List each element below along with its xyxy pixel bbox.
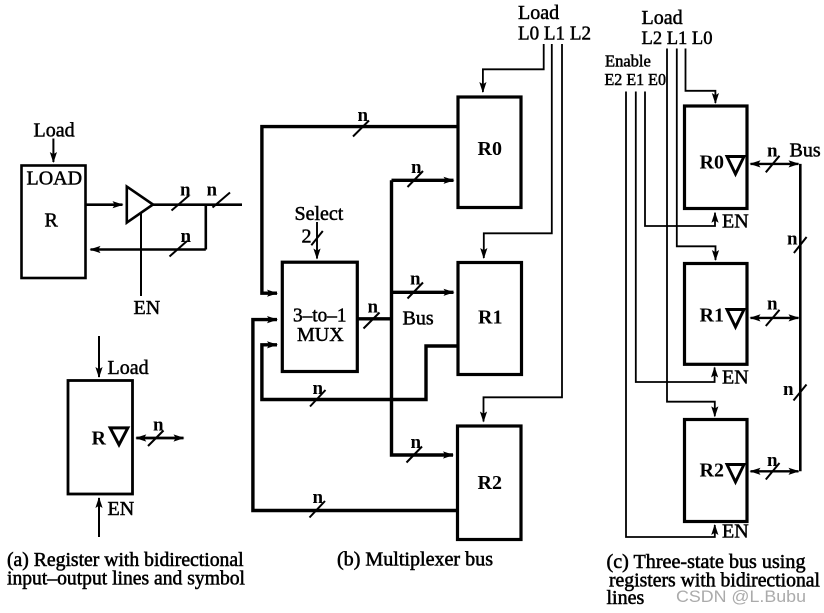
wire E1 to R1 enable [636, 92, 715, 383]
svg-text:E2 E1 E0: E2 E1 E0 [605, 70, 667, 89]
wire L1 to R1 load [484, 44, 552, 258]
svg-text:Bus: Bus [403, 308, 434, 330]
wire EN input to buffer [140, 213, 142, 296]
svg-text:n: n [181, 226, 192, 247]
slash bus lower width [794, 385, 807, 401]
slash output bus width [172, 196, 190, 211]
wire Load input arrow into register R [52, 139, 54, 163]
wire register output to buffer [86, 203, 123, 206]
slash R2 bidir width [766, 463, 780, 480]
register symbol box [68, 381, 133, 495]
svg-text:EN: EN [108, 498, 135, 520]
register R (detailed box) [22, 166, 86, 279]
svg-text:lines: lines [607, 587, 645, 609]
nabla R1 [727, 310, 744, 328]
wire R1 output feedback to MUX input 2 [262, 345, 458, 400]
slash bus to R2 width [407, 447, 423, 463]
svg-text:n: n [313, 378, 324, 399]
svg-text:n: n [787, 229, 798, 250]
svg-text:2: 2 [302, 226, 312, 248]
svg-text:n: n [783, 379, 794, 400]
slash R1 feedback width [310, 390, 326, 407]
svg-text:n: n [767, 294, 778, 315]
wire MUX output to bus [357, 317, 391, 320]
svg-text:Load: Load [108, 357, 149, 379]
three-state buffer [127, 187, 153, 223]
slash R0 bidir width [766, 156, 780, 173]
wire R2 output feedback to MUX input 1 [253, 320, 458, 511]
svg-text:n: n [207, 180, 218, 201]
wire bidirectional data line [136, 437, 183, 440]
wire return line into register [91, 248, 206, 251]
wire bus branch to R1 [392, 291, 454, 294]
svg-text:Bus: Bus [790, 140, 821, 162]
svg-text:Select: Select [295, 203, 344, 225]
nabla R2 [727, 465, 744, 483]
svg-text:Enable: Enable [605, 52, 651, 71]
svg-text:(b) Multiplexer bus: (b) Multiplexer bus [337, 549, 493, 571]
svg-text:Load: Load [642, 7, 683, 29]
wire Select input to MUX [316, 222, 318, 259]
wire R1 bidirectional to bus [751, 317, 799, 319]
svg-text:R2: R2 [478, 472, 502, 494]
wire buffer output line [153, 203, 242, 206]
wire L1 to R1 load (c) [677, 49, 716, 261]
svg-text:Load: Load [518, 2, 559, 24]
slash bus to R0 width [408, 171, 424, 187]
wire R0 bidirectional to bus [751, 163, 799, 165]
svg-text:EN: EN [722, 367, 749, 389]
svg-text:Load: Load [34, 120, 75, 142]
slash mux output width [364, 313, 380, 329]
svg-text:EN: EN [134, 297, 161, 319]
slash return bus width [170, 241, 188, 257]
svg-text:MUX: MUX [297, 324, 344, 346]
wire bus vertical with branch to R2 [392, 180, 454, 455]
svg-text:input–output lines and symbol: input–output lines and symbol [7, 568, 245, 590]
svg-text:R2: R2 [700, 460, 724, 482]
slash R2 feedback width [310, 501, 326, 518]
wire Load arrow into register symbol [98, 336, 100, 377]
svg-text:R: R [92, 428, 107, 450]
wire EN arrow into register symbol [98, 498, 100, 537]
register R0 (c) [685, 106, 748, 209]
slash R0 feedback width [353, 121, 369, 137]
slash select width [311, 231, 323, 245]
register R2 [458, 426, 522, 540]
svg-text:R0: R0 [478, 138, 502, 160]
register R1 [458, 263, 522, 375]
slash bus upper width [794, 237, 807, 253]
wire R2 bidirectional to bus [751, 470, 799, 472]
register R2 (c) [685, 420, 748, 522]
wire L0 to R0 load (c) [686, 49, 716, 104]
wire E0 to R0 enable [645, 92, 715, 227]
nabla R0 [727, 157, 744, 175]
slash bus to R1 width [408, 283, 424, 299]
svg-text:L2 L1 L0: L2 L1 L0 [642, 28, 713, 49]
wire R0 output feedback to MUX input 0 [262, 127, 458, 294]
svg-text:R1: R1 [700, 305, 724, 327]
svg-text:R1: R1 [478, 307, 502, 329]
svg-text:EN: EN [722, 521, 749, 543]
svg-text:CSDN @L.Bubu: CSDN @L.Bubu [676, 588, 806, 606]
svg-text:EN: EN [722, 211, 749, 233]
svg-text:R0: R0 [700, 152, 724, 174]
wire bus branch to R0 [392, 179, 454, 182]
slash R1 bidir width [766, 310, 780, 326]
slash bidirectional width [148, 431, 164, 447]
register R1 (c) [685, 264, 748, 365]
svg-text:R: R [45, 210, 59, 232]
mux 3-to-1 box [282, 262, 357, 371]
wire bus vertical (c) [799, 164, 802, 471]
inversion nabla symbol [110, 428, 128, 445]
wire L2 to R2 load [484, 44, 563, 422]
slash line bus width [213, 193, 231, 208]
wire L2 to R2 load (c) [667, 49, 715, 417]
register R0 [458, 97, 521, 208]
wire L0 to R0 load [483, 44, 544, 92]
wire junction vertical [205, 205, 208, 250]
svg-text:LOAD: LOAD [27, 168, 83, 190]
svg-text:L0 L1 L2: L0 L1 L2 [518, 23, 591, 45]
wire E2 to R2 enable [626, 92, 715, 538]
